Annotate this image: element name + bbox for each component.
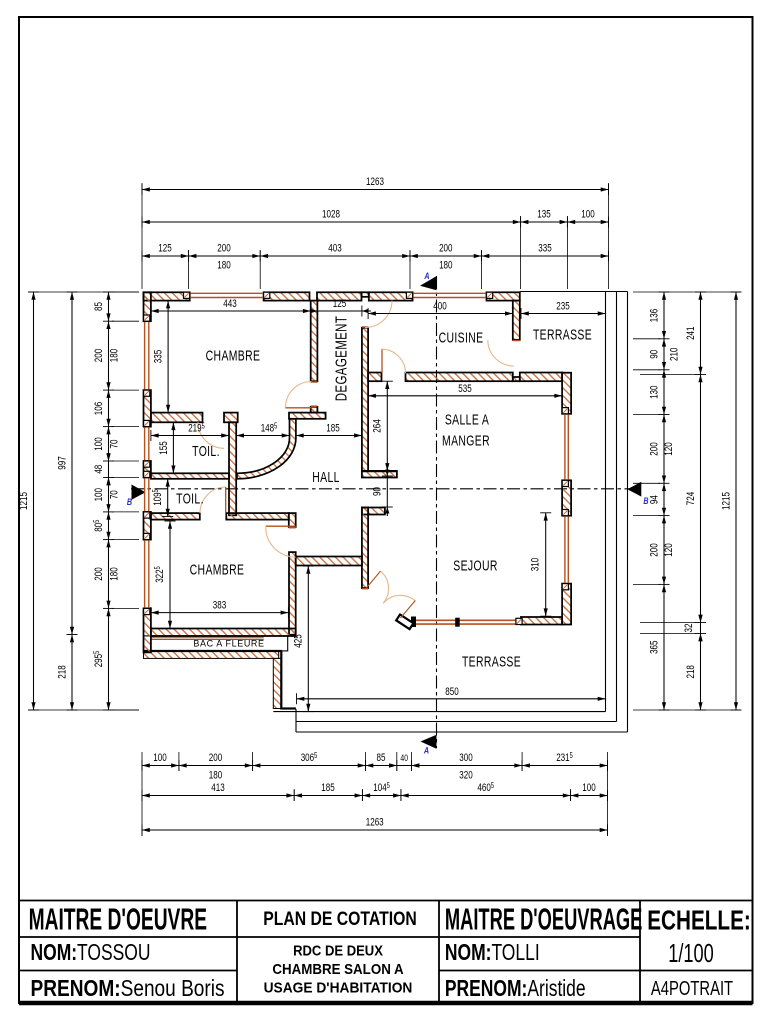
svg-text:136: 136 — [648, 309, 661, 322]
svg-text:300: 300 — [459, 752, 473, 765]
svg-text:200: 200 — [439, 242, 453, 255]
svg-text:ECHELLE:: ECHELLE: — [647, 906, 751, 937]
svg-text:USAGE D'HABITATION: USAGE D'HABITATION — [264, 979, 413, 995]
svg-text:1215: 1215 — [18, 492, 31, 510]
svg-text:320: 320 — [459, 769, 473, 782]
svg-text:218: 218 — [685, 665, 698, 678]
svg-text:106: 106 — [93, 402, 106, 415]
svg-text:PRENOM:Senou Boris: PRENOM:Senou Boris — [31, 976, 225, 1001]
svg-text:155: 155 — [158, 441, 171, 455]
svg-text:218: 218 — [56, 665, 69, 678]
svg-text:403: 403 — [328, 242, 341, 255]
svg-text:NOM:TOSSOU: NOM:TOSSOU — [31, 941, 151, 966]
svg-text:B: B — [127, 497, 132, 507]
svg-text:120: 120 — [663, 543, 676, 557]
svg-text:125: 125 — [158, 242, 172, 255]
svg-text:A4POTRAIT: A4POTRAIT — [651, 977, 733, 1000]
svg-text:413: 413 — [211, 782, 224, 795]
svg-text:DEGAGEMENT: DEGAGEMENT — [332, 316, 350, 402]
svg-text:1/100: 1/100 — [668, 939, 714, 968]
svg-text:100: 100 — [93, 437, 106, 451]
svg-text:180: 180 — [108, 567, 121, 581]
svg-text:85: 85 — [377, 752, 386, 765]
svg-text:365: 365 — [648, 640, 661, 654]
svg-text:400: 400 — [433, 300, 447, 313]
svg-text:48: 48 — [93, 465, 106, 474]
svg-text:TERRASSE: TERRASSE — [533, 327, 592, 343]
svg-text:120: 120 — [663, 442, 676, 456]
svg-text:724: 724 — [685, 491, 698, 505]
svg-text:241: 241 — [685, 326, 698, 339]
svg-text:94: 94 — [648, 495, 661, 504]
svg-text:MAITRE D'OEUVRAGE: MAITRE D'OEUVRAGE — [445, 903, 642, 937]
svg-text:180: 180 — [209, 769, 223, 782]
svg-text:1263: 1263 — [366, 816, 384, 829]
svg-text:100: 100 — [153, 752, 167, 765]
svg-text:310: 310 — [529, 557, 542, 571]
svg-text:200: 200 — [209, 752, 223, 765]
svg-text:1263: 1263 — [366, 176, 384, 189]
svg-text:185: 185 — [326, 422, 340, 435]
svg-text:200: 200 — [217, 242, 231, 255]
svg-text:200: 200 — [648, 442, 661, 456]
svg-text:CHAMBRE: CHAMBRE — [190, 562, 245, 578]
svg-text:200: 200 — [93, 567, 106, 581]
svg-text:200: 200 — [93, 348, 106, 362]
svg-text:383: 383 — [213, 599, 226, 612]
svg-text:HALL: HALL — [312, 469, 340, 485]
svg-text:PLAN DE COTATION: PLAN DE COTATION — [263, 908, 416, 930]
svg-text:185: 185 — [321, 782, 335, 795]
svg-text:100: 100 — [582, 782, 596, 795]
svg-text:CHAMBRE: CHAMBRE — [206, 348, 261, 364]
svg-text:90: 90 — [371, 487, 384, 496]
svg-text:CUISINE: CUISINE — [439, 330, 484, 346]
svg-text:425: 425 — [292, 634, 305, 648]
svg-text:BAC A FLEURE: BAC A FLEURE — [193, 639, 264, 649]
svg-text:180: 180 — [439, 259, 453, 272]
svg-text:MANGER: MANGER — [442, 433, 490, 449]
svg-text:264: 264 — [371, 419, 384, 433]
svg-text:A: A — [424, 271, 430, 281]
svg-text:210: 210 — [668, 347, 681, 361]
svg-text:70: 70 — [108, 439, 121, 448]
svg-text:997: 997 — [56, 456, 69, 469]
svg-text:535: 535 — [458, 383, 472, 396]
svg-text:1215: 1215 — [720, 492, 733, 510]
svg-text:235: 235 — [556, 300, 570, 313]
svg-text:125: 125 — [333, 298, 347, 311]
svg-text:PRENOM:Aristide: PRENOM:Aristide — [445, 977, 586, 1002]
svg-text:MAITRE D'OEUVRE: MAITRE D'OEUVRE — [29, 903, 207, 937]
svg-text:B: B — [643, 496, 648, 506]
svg-text:TOIL.: TOIL. — [176, 491, 204, 507]
svg-text:180: 180 — [217, 259, 231, 272]
svg-text:A: A — [423, 746, 429, 756]
svg-text:TOIL.: TOIL. — [192, 443, 220, 459]
svg-text:CHAMBRE SALON A: CHAMBRE SALON A — [272, 960, 403, 977]
svg-text:90: 90 — [648, 349, 661, 358]
svg-text:100: 100 — [581, 208, 595, 221]
svg-text:443: 443 — [223, 298, 236, 311]
svg-text:850: 850 — [445, 686, 459, 699]
svg-text:135: 135 — [537, 208, 551, 221]
svg-text:70: 70 — [108, 490, 121, 499]
svg-text:SEJOUR: SEJOUR — [453, 558, 497, 574]
svg-text:100: 100 — [93, 488, 106, 502]
svg-text:1028: 1028 — [322, 208, 340, 221]
svg-text:40: 40 — [400, 753, 408, 763]
svg-text:NOM:TOLLI: NOM:TOLLI — [445, 941, 540, 966]
svg-text:335: 335 — [152, 349, 165, 363]
svg-text:SALLE A: SALLE A — [445, 412, 489, 428]
svg-text:TERRASSE: TERRASSE — [462, 654, 521, 670]
svg-text:RDC DE DEUX: RDC DE DEUX — [293, 943, 384, 959]
svg-text:130: 130 — [648, 385, 661, 399]
svg-text:32: 32 — [683, 624, 696, 633]
svg-text:85: 85 — [93, 302, 106, 311]
svg-text:180: 180 — [108, 348, 121, 362]
svg-text:200: 200 — [648, 543, 661, 557]
svg-text:335: 335 — [538, 242, 552, 255]
